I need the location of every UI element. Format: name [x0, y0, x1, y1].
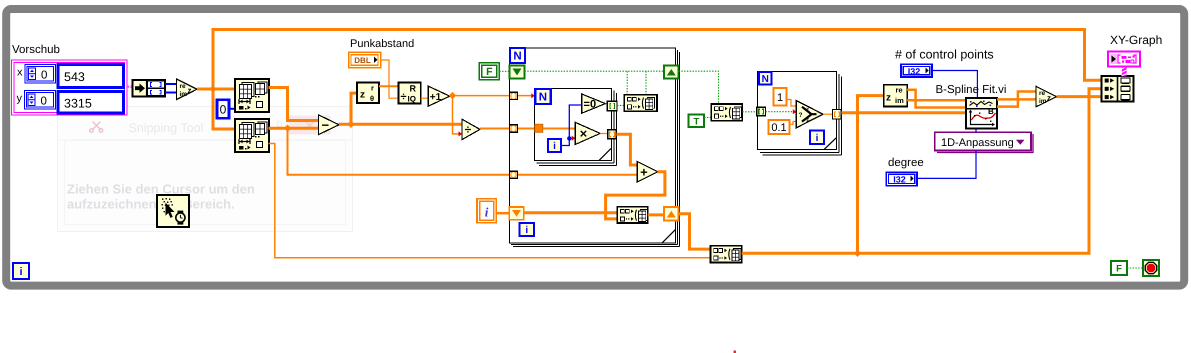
coercion arrow inner N — [531, 93, 535, 98]
svg-text:543: 543 — [64, 70, 85, 84]
wire re to bspline — [907, 90, 966, 108]
svg-text:−: − — [321, 117, 329, 132]
svg-text:r: r — [371, 84, 374, 93]
tunnel element in — [535, 124, 543, 132]
svg-text:IQ: IQ — [408, 94, 416, 103]
svg-text:N: N — [762, 74, 769, 85]
wire element to multiply — [543, 128, 576, 130]
wire DBL to quotient — [381, 60, 399, 98]
wire control points to bspline — [932, 71, 977, 99]
wire 1 to select — [787, 100, 797, 107]
wire build array to SR right — [648, 213, 665, 216]
wire unbundle y to reim — [165, 92, 177, 94]
svg-text:z: z — [886, 92, 891, 103]
svg-text:×: × — [580, 126, 588, 141]
wire bspline out 2 — [997, 98, 1037, 101]
complex i constant — [477, 199, 496, 223]
wire top bus — [213, 30, 1102, 90]
wire increment to inner N — [450, 95, 532, 97]
svg-text:z: z — [1047, 94, 1051, 103]
while loop iteration terminal i — [13, 263, 29, 279]
wire i const to SR — [496, 212, 509, 215]
svg-text:N: N — [539, 92, 547, 104]
svg-text:XY-Graph: XY-Graph — [1110, 33, 1162, 47]
numeric display x = 543 — [58, 65, 124, 88]
unbundle node — [133, 80, 166, 97]
svg-text:z: z — [360, 90, 365, 101]
junction C — [347, 121, 354, 128]
enum constant 1D-Anpassung — [935, 132, 1033, 152]
svg-text:?: ? — [799, 112, 803, 119]
for loop 3 count terminal N — [759, 72, 772, 85]
cluster Vorschub border — [12, 60, 128, 115]
wire junction down to subset2 — [213, 89, 236, 129]
tunnel divide out — [510, 125, 518, 132]
svg-text:im: im — [1039, 98, 1047, 105]
tunnel multiply out — [608, 130, 617, 139]
wire 0 to subset1 index — [229, 108, 237, 110]
constant I32 control points — [901, 64, 932, 77]
wire im to bspline — [907, 99, 966, 102]
boolean constant F (stop wire) — [1111, 261, 1127, 275]
svg-text:degree: degree — [888, 157, 924, 169]
ghost scissors icon — [90, 122, 103, 133]
wire subset2 out to subtract — [269, 127, 320, 130]
wire 0.1 to select — [790, 122, 797, 125]
tunnel increment — [510, 92, 518, 99]
wire F to stop — [1127, 267, 1143, 269]
add node — [637, 162, 657, 183]
svg-text:i: i — [816, 133, 819, 144]
svg-text:Vorschub: Vorschub — [12, 44, 60, 56]
svg-text:T: T — [693, 116, 699, 127]
equal to zero node — [582, 94, 606, 113]
wire divide to multiply tunnel — [480, 128, 576, 130]
svg-text:+1: +1 — [430, 92, 442, 103]
boolean constant F — [479, 63, 499, 80]
numeric constant 1 — [774, 88, 787, 106]
while loop stop (condition) terminal — [1143, 260, 1159, 276]
build array 3 — [711, 246, 742, 263]
junction blue — [567, 136, 571, 140]
wire add out loop-around — [606, 172, 665, 219]
increment node — [428, 86, 450, 106]
re-im to complex node — [177, 79, 198, 100]
svg-text:re: re — [1039, 90, 1046, 97]
wire subset2 lower out to build array 3 — [269, 144, 712, 258]
complex to re-im node — [884, 85, 907, 107]
wire multiply to tunnel — [600, 133, 607, 135]
wire branch down to loop tunnel — [288, 128, 638, 175]
numeric index control x — [25, 65, 56, 84]
wire degree to bspline — [917, 129, 976, 179]
divide node — [462, 119, 480, 139]
complex to polar node — [357, 83, 379, 104]
wire bspline out 1 — [997, 92, 1037, 107]
tunnel weights out — [833, 110, 842, 120]
svg-text:DBL: DBL — [354, 56, 371, 65]
wire green SR across loop — [525, 70, 665, 72]
wire unbundle x to reim — [165, 83, 177, 85]
wire tunnel to build array 2 — [617, 104, 625, 106]
coercion dot multiply — [572, 136, 576, 141]
wire build array 3 out bus — [742, 89, 1102, 254]
svg-text:1D-Anpassung: 1D-Anpassung — [941, 137, 1014, 149]
svg-text:B: B — [988, 107, 994, 116]
junction D — [449, 92, 456, 99]
for loop 3 iteration terminal i — [810, 131, 824, 145]
wire T to build array 4 — [704, 116, 711, 118]
wire build array 4 to loop 3 — [742, 111, 757, 113]
svg-text:i: i — [485, 205, 489, 220]
shift register left orange — [509, 207, 524, 220]
for loop 3 border — [758, 72, 842, 156]
re-im to complex node right — [1036, 86, 1057, 107]
svg-text:0: 0 — [41, 70, 47, 82]
wire boolean to select — [766, 111, 797, 113]
constant DBL Punkabstand — [349, 52, 381, 67]
for loop 2 iteration terminal i — [548, 139, 561, 152]
shift register right orange — [664, 207, 678, 221]
coercion dot select — [793, 109, 797, 114]
build array 4 boolean — [711, 104, 742, 121]
for loop 2 border — [535, 89, 617, 166]
multiply node — [575, 122, 600, 144]
XY graph terminal — [1108, 52, 1140, 67]
svg-text:0: 0 — [41, 96, 47, 108]
junction A — [209, 85, 216, 92]
svg-text:0: 0 — [220, 103, 227, 117]
quotient and remainder node — [399, 82, 421, 103]
XY graph wire hatched — [1122, 66, 1127, 76]
wire equals to tunnel — [605, 103, 608, 105]
coercion dot divide — [459, 131, 463, 136]
bundle node — [1102, 76, 1134, 102]
cluster wire to unbundle — [127, 85, 133, 87]
svg-text:im: im — [180, 91, 188, 98]
for loop 1 count terminal N — [510, 48, 525, 63]
svg-text:3315: 3315 — [64, 97, 92, 111]
svg-text:1: 1 — [777, 92, 783, 104]
svg-text:F: F — [1116, 263, 1122, 274]
wire branch up to complex split — [858, 96, 885, 254]
subtract node — [319, 115, 340, 135]
select node — [796, 101, 823, 128]
build array in loop — [617, 207, 648, 223]
wire F to shift register — [499, 70, 510, 72]
for loop 1 border — [510, 48, 680, 247]
wire r to quotient — [379, 85, 399, 87]
wire complex out to junction — [197, 88, 213, 91]
wire subtract out to divide — [339, 123, 463, 126]
svg-text:R: R — [410, 84, 417, 94]
while loop border — [6, 9, 1184, 286]
for loop 1 iteration terminal i — [520, 223, 535, 236]
array subset node 2 — [235, 119, 269, 152]
svg-text:N: N — [513, 51, 521, 63]
svg-text:F: F — [807, 118, 810, 123]
tunnel boolean out — [607, 101, 617, 110]
wire increment branch to divide — [453, 96, 459, 134]
wire i up to equals — [561, 105, 582, 146]
busy cursor icon — [157, 195, 189, 227]
wire green drop 2 — [645, 71, 647, 94]
wire weights to bspline — [841, 111, 966, 114]
svg-text:im: im — [895, 96, 904, 105]
build array 2 boolean — [624, 95, 657, 112]
for loop 2 count terminal N — [535, 89, 551, 104]
svg-text:T: T — [807, 107, 810, 112]
svg-text:0.1: 0.1 — [771, 122, 786, 134]
wire green drop 1 — [626, 71, 628, 94]
wire green SR out — [679, 71, 719, 104]
svg-text:re: re — [180, 83, 187, 90]
svg-text:B-Spline Fit.vi: B-Spline Fit.vi — [936, 84, 1007, 96]
wire subset1 out to subtract — [269, 88, 320, 121]
wire multiply array to add — [616, 134, 637, 165]
svg-text:i: i — [525, 225, 528, 236]
numeric constant 0 — [217, 100, 229, 119]
wire select to tunnel — [823, 113, 833, 115]
svg-text:Snipping Tool: Snipping Tool — [129, 121, 204, 135]
ghost close button — [289, 116, 331, 135]
svg-text:+: + — [640, 164, 648, 179]
svg-text:I32: I32 — [893, 174, 906, 184]
svg-text:Punkabstand: Punkabstand — [350, 38, 414, 50]
junction E — [854, 250, 861, 257]
wire i to multiply — [569, 137, 572, 139]
B-Spline Fit vi node — [966, 98, 997, 129]
shift register right green — [664, 66, 679, 79]
svg-text:=0: =0 — [584, 99, 597, 111]
junction B — [284, 125, 291, 132]
svg-text:÷: ÷ — [401, 91, 407, 103]
svg-text:re: re — [896, 86, 903, 95]
wire junction to subset1 — [213, 88, 237, 91]
stray red pixel — [734, 351, 737, 353]
svg-text:z: z — [188, 86, 192, 95]
boolean constant T — [689, 115, 705, 128]
svg-text:aufzuzeichnenden Bereich.: aufzuzeichnenden Bereich. — [67, 197, 235, 212]
wire SR out to build array 3 — [678, 214, 711, 249]
wire SR to build array — [524, 211, 618, 214]
svg-text:y: y — [17, 93, 23, 105]
array subset node 1 — [235, 79, 269, 112]
tunnel boolean in loop 3 — [757, 107, 766, 116]
svg-text:i: i — [553, 141, 556, 152]
constant I32 degree — [886, 172, 917, 186]
wire complex to bundle — [1057, 95, 1103, 98]
Snipping Tool ghost window frame — [58, 107, 353, 232]
svg-text:θ: θ — [370, 94, 374, 103]
svg-text:÷: ÷ — [465, 123, 472, 137]
ghost maximize button — [278, 122, 282, 127]
svg-text:F: F — [486, 66, 493, 78]
svg-text:# of control points: # of control points — [895, 48, 994, 62]
wire IQ to increment — [421, 97, 429, 99]
shift register left green — [510, 66, 525, 79]
numeric constant 0.1 — [769, 120, 790, 134]
svg-text:I32: I32 — [908, 66, 921, 76]
svg-text:x: x — [17, 67, 23, 79]
wire branch up to polar — [351, 93, 357, 124]
svg-text:i: i — [19, 266, 22, 278]
numeric index control y — [25, 91, 56, 110]
tunnel punkabstand — [510, 171, 518, 178]
numeric display y = 3315 — [58, 91, 124, 113]
